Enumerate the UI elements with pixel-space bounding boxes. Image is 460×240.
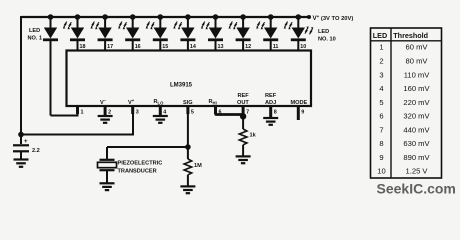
svg-text:LED: LED <box>318 29 329 35</box>
node SIG junction <box>185 144 191 150</box>
svg-text:PIEZOELECTRIC: PIEZOELECTRIC <box>118 161 163 167</box>
LED No.6 (pin 14) <box>173 14 195 50</box>
piezoelectric transducer <box>98 147 117 183</box>
ground at pin 2 <box>98 116 113 123</box>
svg-text:LED: LED <box>373 31 387 40</box>
svg-text:5: 5 <box>191 110 194 116</box>
svg-text:3: 3 <box>136 110 139 116</box>
svg-text:1k: 1k <box>250 133 257 139</box>
svg-text:11: 11 <box>273 44 279 50</box>
svg-text:NO. 1: NO. 1 <box>28 36 43 42</box>
svg-text:18: 18 <box>80 44 86 50</box>
svg-text:4: 4 <box>163 110 166 116</box>
resistor 1M <box>184 147 192 186</box>
svg-text:REF: REF <box>265 93 277 99</box>
svg-text:2.2: 2.2 <box>32 148 40 154</box>
LED No.8 (pin 12) <box>229 14 251 50</box>
ground below 1k <box>236 156 251 163</box>
svg-text:60 mV: 60 mV <box>406 43 429 52</box>
svg-text:+: + <box>24 139 28 145</box>
wire pin 7 to resistor 1k <box>242 106 244 129</box>
ground at pin 4 <box>153 116 168 123</box>
svg-text:LM3915: LM3915 <box>170 83 193 89</box>
node V+ rail terminal <box>307 15 311 19</box>
svg-text:1: 1 <box>81 110 84 116</box>
svg-text:NO. 10: NO. 10 <box>318 37 336 43</box>
svg-text:8: 8 <box>274 110 277 116</box>
wire SIG node to piezo <box>107 146 188 148</box>
svg-text:80 mV: 80 mV <box>406 57 429 66</box>
IC U1 LM3915 body <box>67 51 312 107</box>
svg-text:RLO: RLO <box>154 99 165 106</box>
LED No.2 (pin 18) <box>63 14 85 50</box>
svg-text:5: 5 <box>379 98 383 107</box>
resistor 1k <box>239 129 247 156</box>
svg-text:10: 10 <box>377 167 385 176</box>
LED No.7 (pin 13) <box>201 14 223 50</box>
ground below 1M <box>180 186 195 193</box>
LED No.5 (pin 15) <box>146 14 168 50</box>
svg-text:TRANSDUCER: TRANSDUCER <box>118 169 157 175</box>
svg-text:2: 2 <box>108 110 111 116</box>
svg-text:LED: LED <box>29 28 40 34</box>
svg-text:440 mV: 440 mV <box>403 125 430 134</box>
wire pin 5 to SIG node <box>187 114 189 147</box>
pin 4 stub <box>159 106 162 116</box>
svg-text:SeekIC.com: SeekIC.com <box>377 181 456 197</box>
svg-text:3: 3 <box>379 70 383 79</box>
svg-text:17: 17 <box>107 44 113 50</box>
svg-text:6: 6 <box>379 112 383 121</box>
svg-text:2: 2 <box>379 57 383 66</box>
svg-text:SIG: SIG <box>183 100 193 106</box>
svg-text:Threshold: Threshold <box>393 31 428 40</box>
svg-text:14: 14 <box>190 44 196 50</box>
node C1 junction <box>18 132 24 138</box>
svg-text:7: 7 <box>246 110 249 116</box>
ground below C1 <box>14 160 29 167</box>
pin 1 stub <box>76 106 79 114</box>
svg-text:1.25 V: 1.25 V <box>406 167 429 176</box>
svg-text:110 mV: 110 mV <box>404 70 431 79</box>
LED No.1 <box>43 14 58 115</box>
svg-text:MODE: MODE <box>291 100 308 106</box>
pin 3 stub <box>131 106 134 114</box>
svg-text:10: 10 <box>300 44 306 50</box>
LED No.10 (pin 10) <box>284 14 314 50</box>
svg-text:160 mV: 160 mV <box>403 84 430 93</box>
svg-text:8: 8 <box>379 139 383 148</box>
pin 5 stub <box>186 106 189 114</box>
svg-text:12: 12 <box>245 44 251 50</box>
svg-text:1: 1 <box>379 43 383 52</box>
svg-text:4: 4 <box>379 84 383 93</box>
pin 8 stub <box>269 106 272 118</box>
wire pin 6 to pin 7 <box>216 113 244 116</box>
svg-text:320 mV: 320 mV <box>403 112 430 121</box>
svg-text:RHI: RHI <box>209 99 217 106</box>
svg-text:ADJ: ADJ <box>265 100 276 106</box>
svg-text:15: 15 <box>162 44 168 50</box>
pin 6 stub <box>214 106 217 114</box>
svg-text:9: 9 <box>379 153 383 162</box>
svg-text:REF: REF <box>238 93 250 99</box>
pin 2 stub <box>104 106 107 116</box>
svg-text:V+ (3V TO 20V): V+ (3V TO 20V) <box>313 14 354 22</box>
svg-text:9: 9 <box>301 110 304 116</box>
wire left drop from rail to C1 junction <box>20 16 22 135</box>
LED No.4 (pin 16) <box>118 14 140 50</box>
capacitor 2.2uF <box>13 135 29 160</box>
ground below piezo <box>100 183 115 190</box>
wire pin 6 stub down <box>215 106 217 116</box>
LED No.9 (pin 11) <box>256 14 278 50</box>
wire V+ top rail <box>21 16 309 18</box>
LED No.3 (pin 17) <box>91 14 113 50</box>
node pin 7 junction <box>240 113 246 119</box>
pin 9 stub <box>297 106 300 120</box>
svg-text:16: 16 <box>135 44 141 50</box>
svg-text:13: 13 <box>218 44 224 50</box>
svg-text:OUT: OUT <box>237 100 249 106</box>
wire LED No.1 cathode to pin 1 <box>51 106 78 116</box>
wire C1 junction to pin 3 (V+) <box>21 106 133 135</box>
svg-text:220 mV: 220 mV <box>403 98 430 107</box>
table LED thresholds <box>371 28 442 178</box>
svg-text:630 mV: 630 mV <box>403 139 430 148</box>
svg-text:1M: 1M <box>194 163 202 169</box>
svg-text:7: 7 <box>379 125 383 134</box>
svg-text:890 mV: 890 mV <box>403 153 430 162</box>
pin 7 stub <box>242 106 245 114</box>
ground at pin 8 <box>263 118 278 125</box>
